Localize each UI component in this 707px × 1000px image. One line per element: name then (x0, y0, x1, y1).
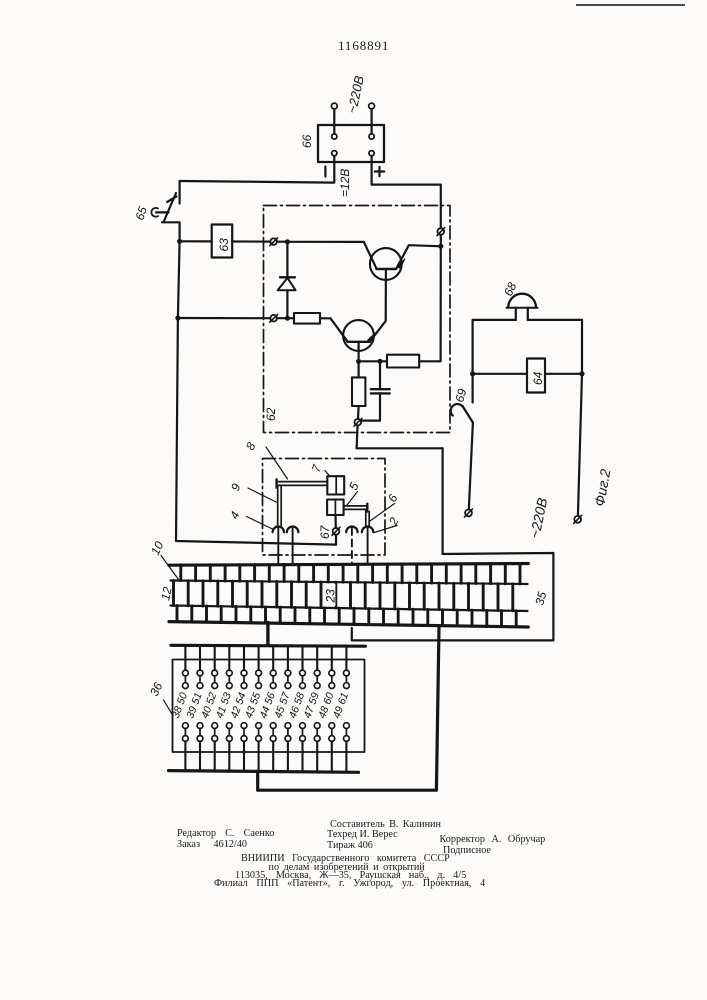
svg-text:65: 65 (133, 205, 151, 222)
block 36 box (173, 660, 365, 753)
label Fig.2 (591, 468, 613, 508)
label 6 with leader (370, 492, 401, 521)
connector pin bottom of unit 62 (354, 418, 362, 426)
node I (right of 64) (579, 371, 584, 376)
label 62 (264, 407, 278, 421)
svg-text:4: 4 (227, 509, 243, 521)
heater band row1 cells (181, 564, 520, 584)
wire bell top right (528, 320, 582, 374)
wire node A to block 63 (180, 240, 212, 242)
rod 6 (horizontal+vertical plug rod) (344, 504, 370, 526)
heater band row separator 2 (171, 606, 528, 612)
label 36 with leader (147, 680, 173, 716)
label 68 (501, 280, 519, 298)
block 36 lower contact pairs (183, 723, 350, 742)
svg-text:62: 62 (264, 407, 278, 421)
bus above block 36 (171, 644, 365, 648)
svg-text:36: 36 (147, 680, 165, 698)
wire right rail to mains terminal (578, 374, 582, 516)
label 67 (318, 524, 332, 539)
switch 69 (451, 374, 473, 423)
svg-text:63: 63 (217, 238, 231, 252)
socket 7 (plug body) (327, 476, 344, 494)
svg-text:23: 23 (324, 589, 338, 604)
diode VD1 (278, 242, 296, 318)
label minus (324, 167, 326, 177)
svg-text:67: 67 (318, 524, 332, 539)
label 10 with leader (148, 539, 178, 580)
block 36 contact number labels (170, 690, 351, 720)
heater band row3 cells (177, 606, 516, 627)
heater band bottom rail (169, 622, 528, 627)
label 23 cell (323, 584, 338, 606)
mains terminal right (574, 515, 582, 523)
svg-text:~220В: ~220В (344, 74, 367, 115)
svg-text:69: 69 (452, 387, 469, 404)
rod 8 (horizontal plug rod) (277, 479, 328, 487)
transistor V1 (upper) (364, 242, 438, 280)
wire node B to transistor V1 collector (287, 241, 363, 243)
svg-text:64: 64 (531, 371, 545, 385)
svg-text:66: 66 (300, 134, 314, 148)
label 64 (531, 371, 545, 385)
wire node C to connector pin 2nd (178, 317, 270, 319)
connector pin right of unit 62 (437, 228, 445, 236)
patent number header (338, 38, 389, 54)
switch 65 actuator (151, 208, 168, 217)
left rail lower segment (176, 318, 336, 545)
terminal pin top-right of 66 (369, 103, 375, 139)
bell 68 (507, 294, 538, 320)
bottom return wire (258, 628, 439, 791)
stub band to bus (266, 623, 269, 646)
unit 62 boundary (dash-dot box) (264, 206, 451, 433)
label 35 (532, 590, 549, 607)
node D (diode bottom) (277, 316, 290, 321)
label ~220V bottom (526, 496, 550, 539)
svg-text:=12В: =12В (338, 169, 352, 197)
wire enclosure around band right end (352, 448, 554, 640)
label 8 with leader (243, 440, 287, 479)
heater band outline top rail (169, 564, 528, 566)
block 36 upper contact pairs (183, 670, 350, 688)
connector pin top of unit 62 (270, 238, 278, 246)
inner contact pins of 66 (332, 151, 375, 156)
socket 5 (plug body) (327, 500, 344, 516)
mains terminal left (465, 509, 473, 517)
imprint text block (330, 819, 441, 830)
block 36 upper ticks (185, 646, 346, 670)
svg-text:6: 6 (385, 492, 401, 504)
svg-text:5: 5 (346, 480, 362, 492)
svg-text:35: 35 (532, 590, 549, 607)
label =12V (338, 169, 352, 197)
resistor R3 (vertical) (352, 361, 365, 419)
label 9 with leader (228, 481, 278, 503)
connector unit boundary (lower dash-dot box) (263, 459, 386, 556)
label 12 (158, 585, 175, 601)
resistor R1 (287, 313, 347, 342)
wire right rail down to R2 (419, 246, 441, 361)
wire block 63 to connector pin (232, 240, 270, 242)
connector pin 67 (332, 515, 340, 545)
contact prong second left (287, 527, 298, 565)
label plus (375, 167, 384, 176)
wire pin to lower bend (357, 426, 443, 449)
label 7 with leader (309, 462, 330, 477)
connector pin 2nd of unit 62 (270, 314, 278, 322)
node H (left of 64) (470, 371, 475, 376)
left rail middle segment (178, 241, 180, 318)
block 36 bottom rail (169, 771, 359, 773)
label 2 with leader (374, 515, 402, 532)
svg-text:10: 10 (148, 539, 166, 557)
label 69 (452, 387, 469, 404)
label ~220V top (344, 74, 367, 115)
contact prong 4 (273, 527, 284, 565)
node A (left rail / 63) (177, 239, 182, 244)
contact prong dashed (3rd) (346, 527, 357, 565)
wire switch 69 to mains terminal (469, 423, 473, 510)
svg-text:9: 9 (228, 481, 244, 493)
label 5 with leader (346, 480, 362, 505)
converter block 66 (318, 125, 384, 162)
label 66 (300, 134, 314, 148)
terminal pin top-left of 66 (331, 103, 337, 139)
wire minus output of 66 (180, 156, 335, 183)
svg-text:~220В: ~220В (526, 496, 550, 539)
node C (left rail lower) (175, 315, 180, 320)
block 63 (212, 225, 233, 258)
svg-text:7: 7 (309, 462, 325, 474)
heater band row separator 1 (171, 581, 528, 585)
capacitor C1 (362, 361, 390, 420)
resistor R2 (horizontal) (380, 355, 419, 368)
rod 9 (vertical plug rod) (278, 485, 282, 526)
switch 65 blade (162, 193, 180, 241)
label 65 (133, 205, 151, 222)
label 63 (217, 238, 231, 252)
node B (diode top) (277, 239, 290, 244)
heater band row2 cells (174, 581, 513, 611)
wire left rail top (179, 181, 181, 204)
block 36 lower ticks (185, 741, 346, 771)
label 4 with leader (227, 509, 273, 529)
svg-text:Фиг.2: Фиг.2 (591, 468, 613, 508)
svg-text:8: 8 (243, 440, 259, 452)
transistor V2 (lower) (343, 269, 386, 359)
node E (right rail) (438, 235, 443, 249)
relay 64 (473, 359, 582, 393)
wire bell top left (473, 320, 516, 374)
wire plus output of 66 (372, 156, 441, 228)
contact prong 2 (362, 527, 373, 565)
node F (V2 emitter node) (356, 359, 361, 364)
node G (capacitor top) (359, 359, 383, 364)
